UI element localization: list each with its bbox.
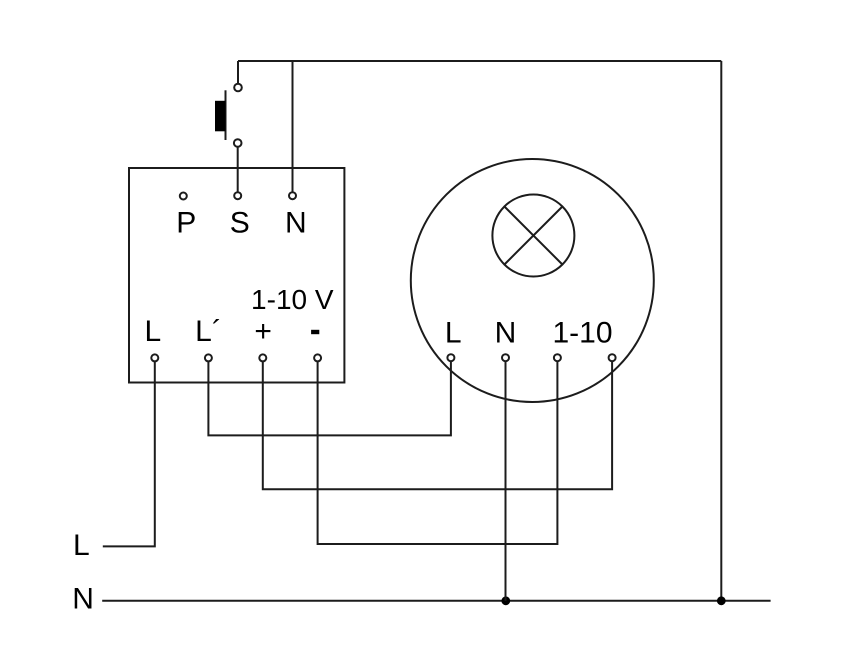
terminal L': [205, 354, 212, 361]
wire push-button top lead: [237, 61, 239, 83]
wire N top to terminal N: [292, 61, 294, 192]
terminal P: [180, 193, 187, 200]
terminal L: [151, 354, 158, 361]
svg-text:N: N: [495, 316, 517, 349]
svg-text:+: +: [254, 315, 272, 348]
svg-text:L: L: [73, 529, 90, 562]
svg-text:1-10: 1-10: [552, 316, 612, 349]
push-button S cap: [215, 101, 226, 132]
lamp terminal N: [502, 354, 509, 361]
lamp terminal 1-10 plus: [609, 354, 616, 361]
svg-text:N: N: [72, 582, 94, 615]
wire N right vertical drop: [720, 61, 722, 601]
wire minus to lamp 1-10 minus: [318, 362, 558, 544]
lamp terminal L: [447, 354, 454, 361]
wire lamp N to N bus: [505, 362, 507, 601]
svg-text:1-10 V: 1-10 V: [251, 284, 334, 315]
terminal S: [234, 192, 241, 199]
terminal plus: [259, 354, 266, 361]
svg-text:N: N: [285, 206, 307, 239]
wire L supply: [103, 362, 155, 546]
svg-text:P: P: [176, 206, 196, 239]
wire N top horizontal: [238, 60, 721, 62]
push-button S bottom contact: [234, 139, 242, 147]
label terminal minus: [311, 330, 319, 334]
svg-text:L: L: [145, 315, 162, 348]
control unit box: [129, 168, 344, 383]
wire plus to lamp 1-10 plus: [263, 362, 612, 489]
node junction right drop on N bus: [717, 596, 726, 605]
node junction lamp-N on N bus: [501, 596, 510, 605]
lamp symbol cross: [504, 207, 562, 265]
lamp symbol circle: [492, 195, 574, 277]
wire N supply bus: [102, 600, 770, 602]
lamp terminal 1-10 minus: [554, 354, 561, 361]
svg-text:S: S: [230, 206, 250, 239]
wire L' to lamp L: [208, 362, 451, 435]
lamp unit circle: [411, 159, 654, 402]
push-button S actuator stem: [225, 90, 227, 140]
svg-text:L´: L´: [195, 315, 222, 348]
terminal N: [289, 192, 296, 199]
wire push-button to terminal S: [237, 147, 239, 192]
svg-text:L: L: [445, 316, 462, 349]
push-button S top contact: [234, 84, 242, 92]
terminal minus: [314, 354, 321, 361]
